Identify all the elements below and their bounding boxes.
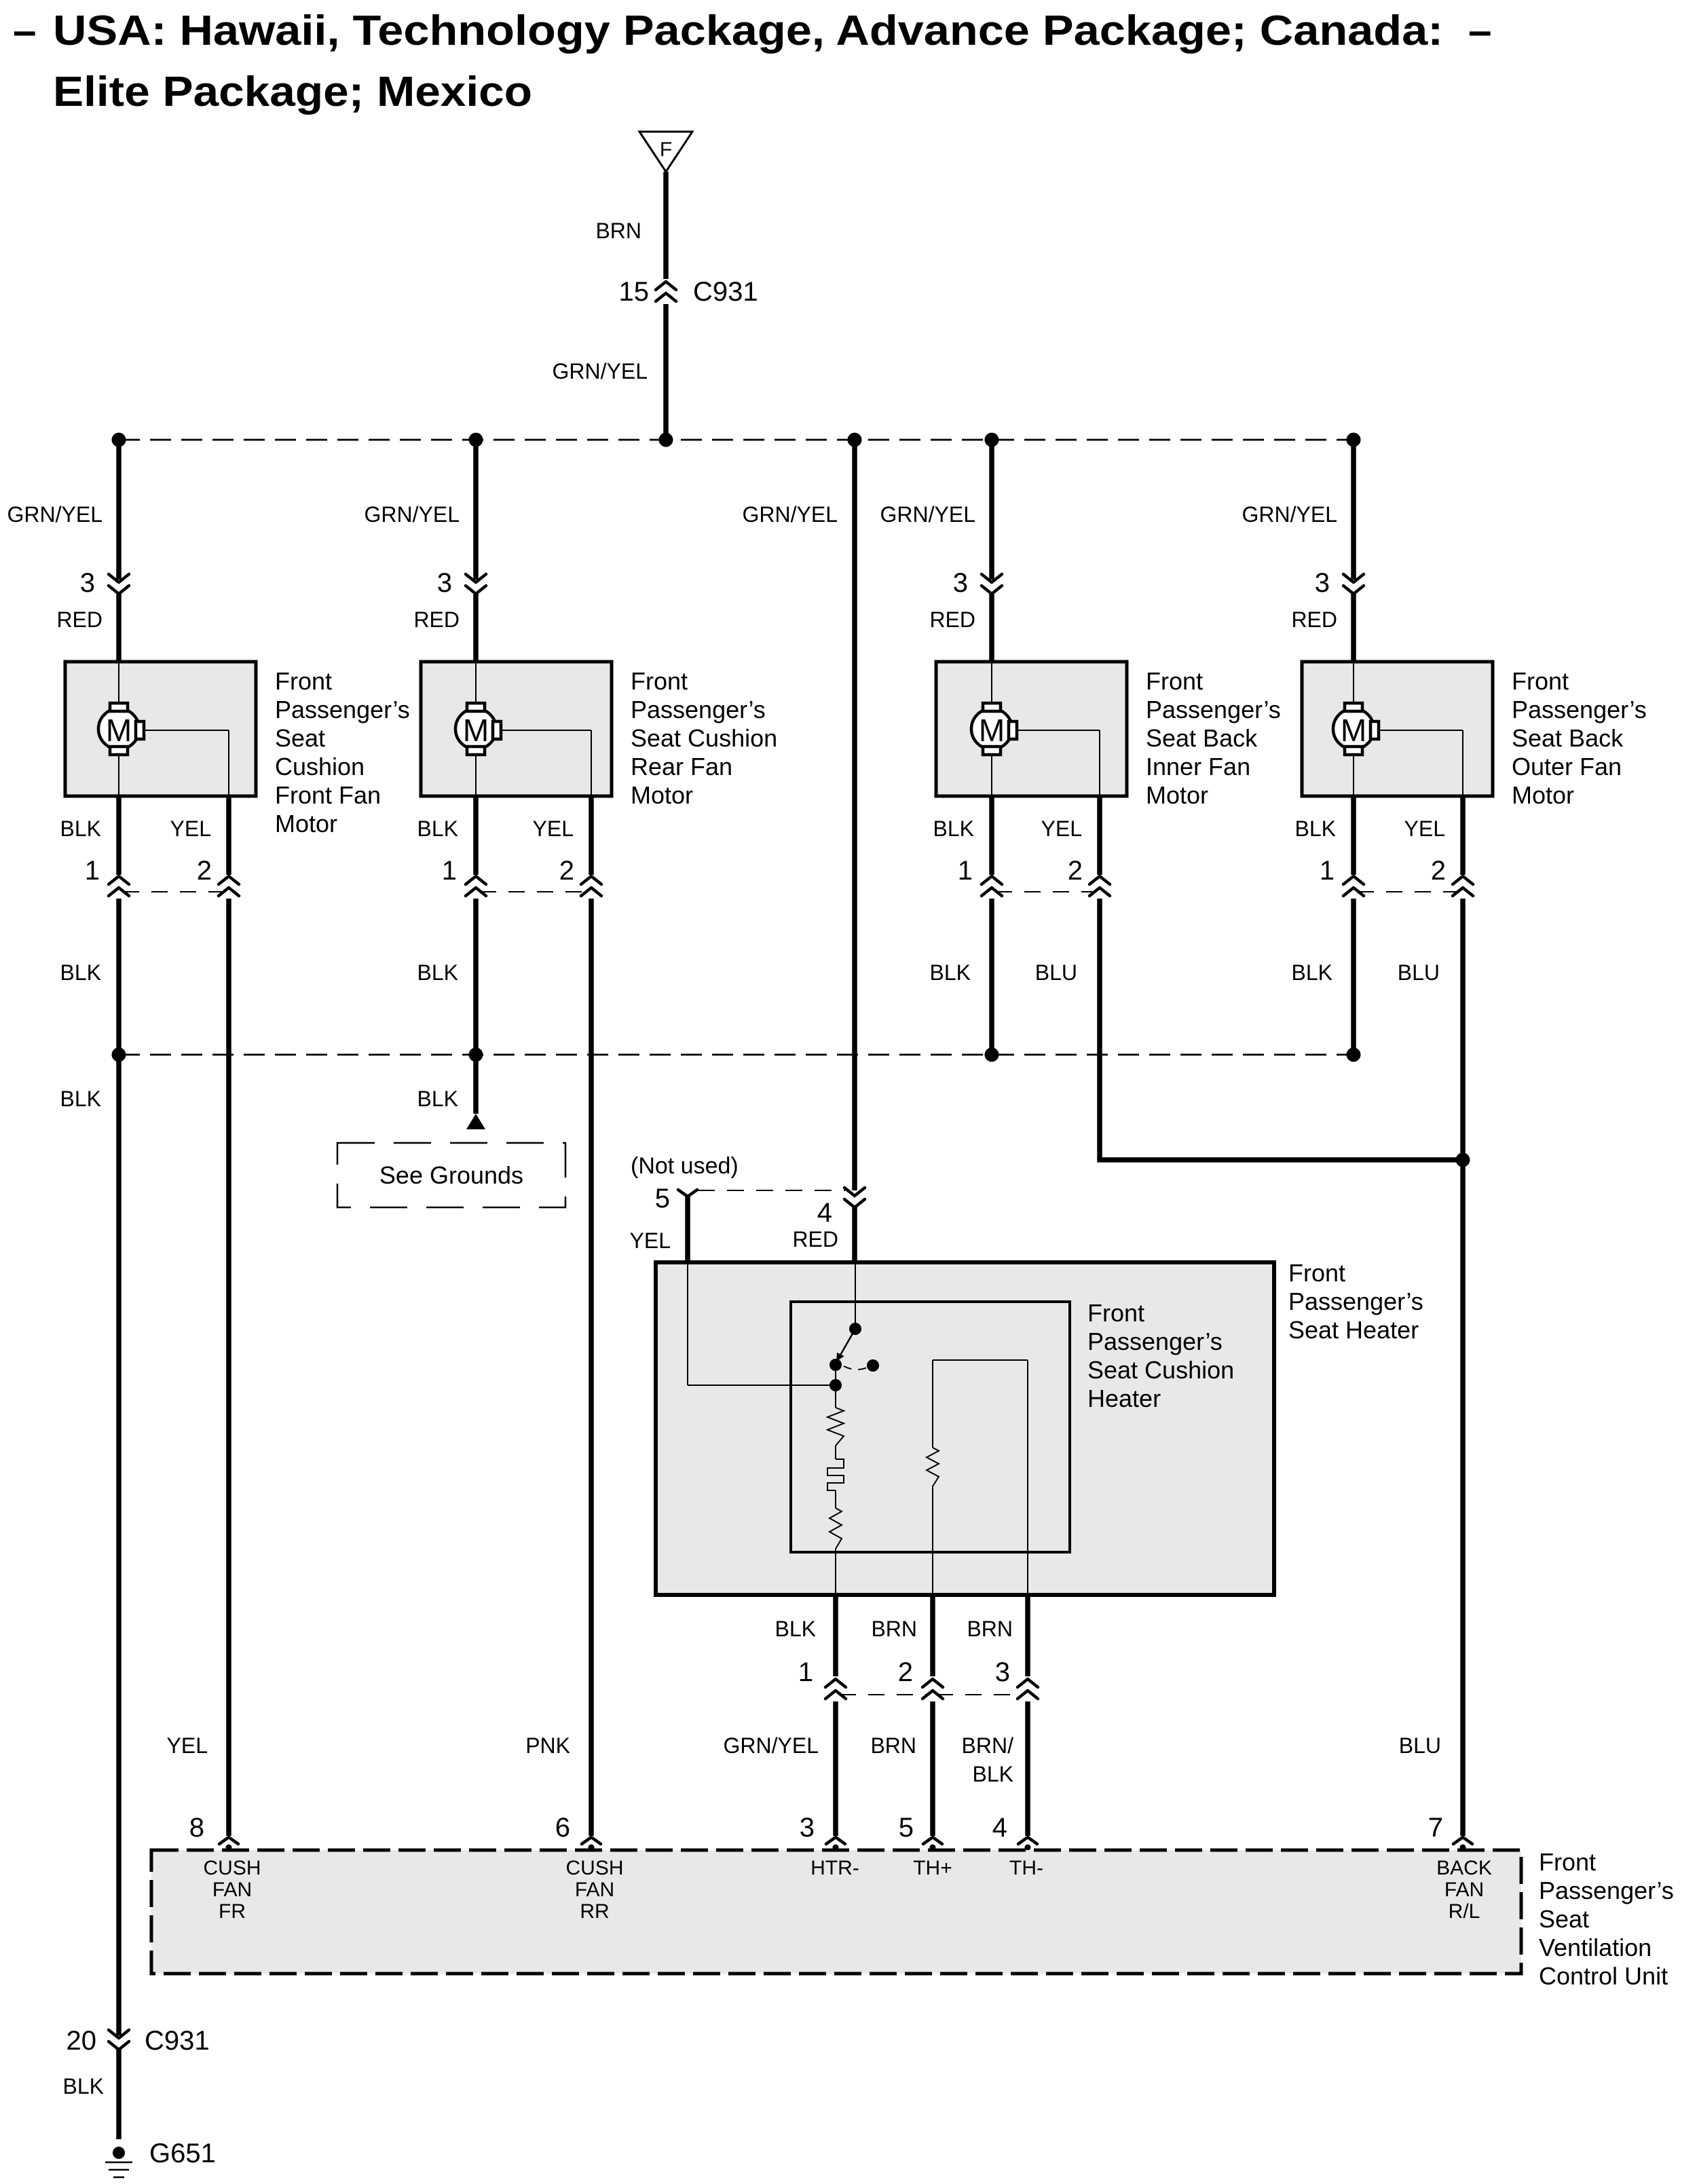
svg-text:7: 7	[1428, 1813, 1443, 1843]
connector pin 3 motor 2	[437, 568, 486, 598]
svg-text:BLK: BLK	[973, 1762, 1013, 1786]
svg-text:Passenger’s: Passenger’s	[1539, 1877, 1674, 1904]
wire GRN/YEL bus to connector 4	[743, 440, 855, 1190]
motor M3 inner fan box	[936, 662, 1127, 796]
svg-text:BLK: BLK	[60, 960, 101, 985]
svg-text:3: 3	[995, 1657, 1010, 1687]
svg-text:CUSH: CUSH	[565, 1857, 623, 1879]
connector pin 3 motor 4	[1315, 568, 1364, 598]
svg-text:Front: Front	[275, 667, 332, 695]
label BLU wire pin7	[1399, 1733, 1441, 1758]
heater element resistor upper	[827, 1385, 844, 1459]
heater switch	[829, 1264, 879, 1391]
svg-text:2: 2	[559, 856, 574, 886]
svg-text:GRN/YEL: GRN/YEL	[553, 359, 648, 383]
svg-text:BACK: BACK	[1436, 1857, 1492, 1879]
svg-text:Seat Heater: Seat Heater	[1288, 1316, 1419, 1344]
svg-text:Motor: Motor	[1146, 781, 1208, 809]
svg-text:Seat Back: Seat Back	[1512, 724, 1624, 752]
wire BLK motor 2 pin1 stub	[417, 796, 476, 875]
heater outer box Front Passengers Seat Heater	[656, 1262, 1274, 1595]
svg-text:YEL: YEL	[167, 1733, 208, 1758]
wire YEL motor 3 pin2 stub	[1041, 796, 1100, 875]
wire GRN/YEL feed motor 1	[7, 440, 119, 580]
svg-text:Front: Front	[631, 667, 688, 695]
svg-text:Heater: Heater	[1087, 1385, 1161, 1412]
svg-text:2: 2	[1068, 856, 1083, 886]
svg-text:–: –	[1468, 7, 1491, 54]
svg-text:4: 4	[992, 1813, 1007, 1843]
svg-text:BRN/: BRN/	[962, 1733, 1014, 1758]
ground arrow motor2	[466, 1114, 485, 1129]
svg-text:TH-: TH-	[1009, 1857, 1043, 1879]
svg-text:BLK: BLK	[63, 2074, 104, 2098]
svg-text:Front: Front	[1539, 1848, 1596, 1876]
svg-text:6: 6	[555, 1813, 570, 1843]
svg-text:Control Unit: Control Unit	[1539, 1962, 1668, 1990]
title text	[13, 7, 1491, 115]
connector 20 C931	[67, 2026, 210, 2056]
svg-text:BLK: BLK	[417, 960, 458, 985]
control unit box dashed	[151, 1850, 1521, 1974]
svg-text:3: 3	[80, 568, 95, 598]
connector pins 1,2 motor 3	[958, 856, 1110, 896]
svg-text:Front: Front	[1512, 667, 1569, 695]
svg-text:BLK: BLK	[60, 816, 101, 841]
motor M2 rear fan box	[421, 662, 612, 796]
svg-text:3: 3	[437, 568, 452, 598]
dashed link pin5 to pin4	[698, 1190, 845, 1191]
svg-text:YEL: YEL	[630, 1228, 671, 1253]
svg-text:BLU: BLU	[1398, 960, 1440, 985]
svg-text:BLK: BLK	[417, 1087, 458, 1111]
junction BLU wires	[1456, 1153, 1470, 1167]
svg-text:FAN: FAN	[212, 1879, 252, 1901]
svg-text:GRN/YEL: GRN/YEL	[1242, 502, 1337, 527]
wire YEL stub to heater	[630, 1197, 688, 1264]
thermal fuse meander	[827, 1459, 844, 1490]
svg-text:YEL: YEL	[1404, 816, 1445, 841]
svg-text:1: 1	[798, 1657, 813, 1687]
wire YEL motor 4 pin2 stub	[1404, 796, 1463, 875]
svg-text:Motor: Motor	[275, 810, 337, 837]
wire BLK motor2 to see-grounds	[417, 1055, 476, 1114]
svg-text:3: 3	[953, 568, 968, 598]
svg-text:3: 3	[800, 1813, 815, 1843]
wire BRN heater pin2	[871, 1595, 933, 1676]
svg-text:M: M	[463, 713, 489, 748]
see grounds box	[337, 1143, 565, 1207]
wire BRN/BLK heater to control unit pin4	[962, 1701, 1028, 1836]
svg-text:Passenger’s: Passenger’s	[1087, 1328, 1223, 1355]
svg-text:Seat Cushion: Seat Cushion	[631, 724, 777, 752]
svg-text:4: 4	[817, 1198, 832, 1228]
ground bus dashed	[112, 1048, 1361, 1062]
svg-text:5: 5	[655, 1184, 670, 1213]
control unit label	[1539, 1848, 1674, 1990]
svg-text:RED: RED	[413, 607, 460, 632]
svg-text:Motor: Motor	[1512, 781, 1574, 809]
wire BLK motor1 ground bus to C931	[60, 1055, 119, 2035]
power bus dashed	[112, 433, 1361, 447]
svg-text:BLU: BLU	[1035, 960, 1077, 985]
heater inner box Front Passengers Seat Cushion Heater	[791, 1302, 1070, 1552]
svg-text:RED: RED	[929, 607, 975, 632]
svg-text:FAN: FAN	[575, 1879, 614, 1901]
wire BLK motor 4 pin1 stub	[1295, 796, 1354, 875]
wire BLK motor 3 pin1 stub	[933, 796, 992, 875]
control unit pin chevrons and numbers	[189, 1813, 1472, 1851]
wire BLU motor3 pin2	[1035, 899, 1463, 1160]
wire BLK motor3 to ground bus	[930, 899, 992, 1055]
svg-text:GRN/YEL: GRN/YEL	[724, 1733, 819, 1758]
svg-text:PNK: PNK	[525, 1733, 570, 1758]
wire BLK to G651	[63, 2050, 119, 2139]
svg-text:Passenger’s: Passenger’s	[1288, 1287, 1423, 1315]
svg-text:Passenger’s: Passenger’s	[1146, 696, 1281, 723]
svg-text:1: 1	[958, 856, 973, 886]
svg-text:Seat: Seat	[275, 724, 325, 752]
svg-text:Seat: Seat	[1539, 1905, 1589, 1933]
connector pin 5 not used	[655, 1184, 697, 1213]
svg-text:BLK: BLK	[417, 816, 458, 841]
svg-text:5: 5	[899, 1813, 914, 1843]
svg-text:Rear Fan: Rear Fan	[631, 753, 732, 780]
svg-text:YEL: YEL	[1041, 816, 1082, 841]
svg-text:–: –	[13, 7, 36, 54]
fuse F	[639, 132, 692, 172]
svg-text:BLK: BLK	[1295, 816, 1336, 841]
wire GRN/YEL heater to control unit pin3	[724, 1701, 836, 1836]
svg-text:Seat Back: Seat Back	[1146, 724, 1258, 752]
svg-text:1: 1	[1320, 856, 1335, 886]
wire RED motor 1	[56, 594, 119, 662]
svg-text:BRN: BRN	[871, 1617, 917, 1641]
svg-text:BLK: BLK	[60, 1087, 101, 1111]
motor M1 label	[275, 667, 410, 837]
connector pin 3 motor 1	[80, 568, 129, 598]
svg-text:BLK: BLK	[1292, 960, 1332, 985]
control unit pin labels	[203, 1857, 1491, 1923]
svg-text:FR: FR	[219, 1900, 246, 1923]
svg-text:HTR-: HTR-	[810, 1857, 859, 1879]
wire GRN/YEL feed motor 3	[880, 440, 992, 580]
svg-text:(Not used): (Not used)	[631, 1153, 739, 1179]
wire RED motor 4	[1291, 594, 1354, 662]
motor M4 label	[1512, 667, 1647, 809]
wire RED motor 3	[929, 594, 992, 662]
svg-text:R/L: R/L	[1449, 1900, 1480, 1923]
svg-text:GRN/YEL: GRN/YEL	[880, 502, 975, 527]
svg-text:USA: Hawaii, Technology Packag: USA: Hawaii, Technology Package, Advance…	[53, 7, 1443, 54]
svg-text:BRN: BRN	[870, 1733, 916, 1758]
svg-text:C931: C931	[693, 277, 758, 307]
wire GRN/YEL feed motor 4	[1242, 440, 1354, 580]
connector pins 1,2 motor 1	[85, 856, 239, 896]
wire RED connector4 to heater	[792, 1207, 855, 1264]
label not used	[631, 1153, 739, 1179]
svg-text:15: 15	[619, 277, 650, 307]
svg-text:Inner Fan: Inner Fan	[1146, 753, 1250, 780]
label YEL wire pin8	[167, 1733, 208, 1758]
wire BRN from fuse to C931	[595, 172, 666, 279]
wire YEL motor1 pin2 to control unit pin 8	[226, 899, 231, 1836]
svg-text:BLU: BLU	[1399, 1733, 1441, 1758]
svg-text:Passenger’s: Passenger’s	[275, 696, 410, 723]
svg-text:C931: C931	[145, 2026, 210, 2056]
svg-text:BLK: BLK	[930, 960, 971, 985]
ground G651	[105, 2139, 216, 2177]
connector pins 1,2 motor 2	[442, 856, 601, 896]
svg-text:GRN/YEL: GRN/YEL	[365, 502, 460, 527]
wire BLK motor 1 pin1 stub	[60, 796, 119, 875]
wire BLU motor4 pin2 to control unit pin 7	[1398, 899, 1463, 1836]
heater element resistor lower	[829, 1490, 842, 1595]
svg-text:1: 1	[442, 856, 457, 886]
svg-text:F: F	[660, 138, 672, 161]
svg-text:See Grounds: See Grounds	[379, 1161, 523, 1189]
motor M3 label	[1146, 667, 1281, 809]
svg-text:YEL: YEL	[170, 816, 211, 841]
svg-text:2: 2	[197, 856, 212, 886]
wire BLK heater pin1	[775, 1595, 836, 1676]
thermistor branch	[927, 1360, 1028, 1595]
svg-text:Passenger’s: Passenger’s	[631, 696, 766, 723]
wire BRN heater to control unit pin5	[870, 1701, 933, 1836]
svg-text:BRN: BRN	[967, 1617, 1013, 1641]
svg-text:GRN/YEL: GRN/YEL	[7, 502, 102, 527]
svg-text:3: 3	[1315, 568, 1330, 598]
svg-text:G651: G651	[149, 2139, 216, 2168]
svg-text:Ventilation: Ventilation	[1539, 1934, 1652, 1961]
svg-text:Front: Front	[1087, 1299, 1144, 1327]
svg-text:Motor: Motor	[631, 781, 693, 809]
heater switch feed from YEL	[688, 1264, 836, 1385]
heater inner label	[1087, 1299, 1234, 1412]
svg-text:FAN: FAN	[1444, 1879, 1484, 1901]
heater outer label	[1288, 1259, 1423, 1344]
wire RED motor 2	[413, 594, 476, 662]
svg-text:Outer Fan: Outer Fan	[1512, 753, 1622, 780]
svg-text:CUSH: CUSH	[203, 1857, 261, 1879]
motor M2 label	[631, 667, 777, 809]
svg-text:1: 1	[85, 856, 100, 886]
motor M1 front fan box	[65, 662, 256, 796]
svg-text:Front: Front	[1146, 667, 1203, 695]
wire BLK motor1 to ground bus	[60, 899, 119, 1055]
svg-text:M: M	[1341, 713, 1366, 748]
connector pin 3 motor 3	[953, 568, 1002, 598]
wire PNK motor2 pin2 to control unit pin 6	[589, 899, 594, 1836]
wire BRN heater pin3	[967, 1595, 1028, 1676]
svg-text:Passenger’s: Passenger’s	[1512, 696, 1647, 723]
label PNK wire pin6	[525, 1733, 570, 1758]
wire BLK motor2 to ground bus	[417, 899, 476, 1055]
svg-text:BLK: BLK	[933, 816, 974, 841]
svg-text:YEL: YEL	[533, 816, 574, 841]
wire YEL motor 2 pin2 stub	[533, 796, 591, 875]
svg-text:Seat Cushion: Seat Cushion	[1087, 1356, 1234, 1384]
motor M4 outer fan box	[1302, 662, 1493, 796]
svg-text:RR: RR	[580, 1900, 609, 1923]
svg-text:Front Fan: Front Fan	[275, 781, 381, 809]
svg-text:TH+: TH+	[913, 1857, 952, 1879]
connector pins 1,2 motor 4	[1320, 856, 1473, 896]
svg-text:BRN: BRN	[595, 219, 641, 243]
svg-text:RED: RED	[1291, 607, 1337, 632]
svg-text:Elite Package; Mexico: Elite Package; Mexico	[53, 69, 532, 115]
svg-text:M: M	[979, 713, 1005, 748]
svg-text:BLK: BLK	[775, 1617, 816, 1641]
wire GRN/YEL feed motor 2	[365, 440, 476, 580]
connector 15 C931	[619, 277, 758, 307]
wire YEL motor 1 pin2 stub	[170, 796, 229, 875]
connector pins 1,2,3 heater	[798, 1657, 1038, 1699]
svg-text:M: M	[106, 713, 132, 748]
svg-text:RED: RED	[56, 607, 102, 632]
svg-text:2: 2	[898, 1657, 913, 1687]
wire BLK motor4 to ground bus	[1292, 899, 1354, 1055]
svg-text:Front: Front	[1288, 1259, 1345, 1287]
svg-text:20: 20	[67, 2026, 97, 2056]
svg-text:8: 8	[189, 1813, 204, 1843]
svg-text:2: 2	[1431, 856, 1446, 886]
svg-text:RED: RED	[792, 1227, 838, 1251]
svg-text:GRN/YEL: GRN/YEL	[743, 502, 838, 527]
svg-text:Cushion: Cushion	[275, 753, 365, 780]
connector pin 4 heater	[817, 1188, 865, 1228]
wire GRN/YEL from C931 to bus	[553, 304, 666, 440]
